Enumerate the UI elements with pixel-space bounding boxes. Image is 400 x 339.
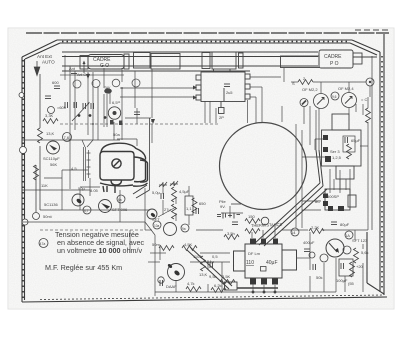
svg-text:650: 650 [199,201,206,206]
svg-text:DF Lm: DF Lm [248,251,261,256]
svg-text:8C: 8C [315,199,320,204]
svg-text:100µF: 100µF [336,278,348,283]
svg-text:M.F. Reglée sur 455 Km: M.F. Reglée sur 455 Km [45,263,122,272]
svg-text:5C1136: 5C1136 [44,202,58,207]
svg-text:6a: 6a [118,198,122,202]
svg-text:9,5k: 9,5k [209,274,217,279]
svg-text:9,6: 9,6 [332,95,337,99]
svg-text:SFT: SFT [152,217,160,222]
svg-text:(55: (55 [348,281,355,286]
svg-text:2P: 2P [219,115,224,120]
svg-text:10a: 10a [154,224,160,228]
svg-text:SC110µF: SC110µF [43,156,60,161]
svg-text:8.05: 8.05 [90,188,99,193]
svg-text:1,1: 1,1 [186,206,192,211]
svg-text:14: 14 [291,230,296,235]
svg-text:600: 600 [52,80,59,85]
svg-text:4,7k: 4,7k [187,281,195,286]
svg-text:un voltmetre 10 000 ohm/v: un voltmetre 10 000 ohm/v [57,246,143,255]
svg-text:80µF: 80µF [340,222,350,227]
svg-text:Ser 3: Ser 3 [330,149,340,154]
svg-text:TAV: TAV [104,86,111,90]
svg-text:5,0µ: 5,0µ [152,190,161,195]
svg-text:3,3K: 3,3K [45,113,54,118]
svg-text:1100: 1100 [193,254,202,259]
svg-text:3,5h: 3,5h [227,231,235,236]
svg-text:40µF: 40µF [266,260,278,266]
svg-text:G O: G O [100,63,109,69]
svg-text:13,K: 13,K [199,272,208,277]
svg-text:3,5K: 3,5K [222,274,231,279]
svg-text:+20: +20 [356,264,364,269]
svg-text:6,5¹¹: 6,5¹¹ [112,100,121,105]
svg-text:DAAF: DAAF [166,284,177,289]
svg-text:CADRE: CADRE [324,54,342,60]
svg-text:50µ: 50µ [78,186,85,191]
svg-text:6,7: 6,7 [84,209,89,213]
svg-text:= C: = C [361,97,367,102]
svg-text:400µF: 400µF [303,240,315,245]
svg-text:OF M2,4: OF M2,4 [338,86,354,91]
svg-text:50k: 50k [316,275,322,280]
svg-text:50m: 50m [152,242,160,247]
svg-text:150: 150 [248,214,255,219]
svg-text:500SP: 500SP [327,194,339,199]
svg-text:0,5: 0,5 [212,254,218,259]
svg-text:AUTO: AUTO [42,60,55,65]
svg-text:4,5µF: 4,5µF [179,189,190,194]
svg-text:50a: 50a [113,132,120,137]
svg-text:Ant Ext: Ant Ext [37,54,53,59]
svg-text:47a: 47a [40,242,46,246]
svg-text:Ant: Ant [69,66,76,71]
svg-text:2ь5: 2ь5 [226,90,233,95]
svg-text:110: 110 [246,260,254,266]
svg-text:4,5: 4,5 [71,166,77,171]
svg-text:SFT 123: SFT 123 [352,238,368,243]
svg-text:9V.: 9V. [220,204,226,209]
svg-text:5,6k: 5,6k [361,250,369,255]
svg-text:9a: 9a [182,227,186,231]
svg-text:2,2K: 2,2K [311,225,320,230]
svg-text:1A: 1A [345,233,350,238]
svg-text:13,K: 13,K [46,131,55,136]
svg-text:50m\: 50m\ [43,214,53,219]
svg-text:56K: 56K [50,162,57,167]
svg-text:11K: 11K [41,183,48,188]
svg-text:6,2k: 6,2k [214,283,222,288]
svg-text:1,2,5: 1,2,5 [332,155,342,160]
svg-text:SFT 096: SFT 096 [112,207,128,212]
svg-text:4,5K: 4,5K [184,242,193,247]
svg-text:65µF: 65µF [351,138,361,143]
svg-text:OF M2,2: OF M2,2 [302,87,318,92]
svg-text:P O: P O [330,61,339,67]
svg-text:7,6: 7,6 [64,135,70,140]
